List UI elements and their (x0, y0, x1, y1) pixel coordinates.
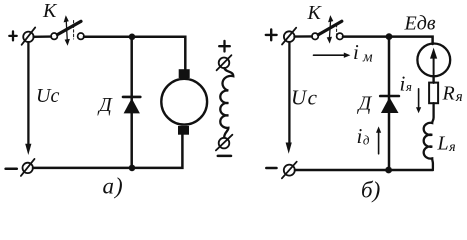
wire terminal to switch (circuit b) (295, 35, 312, 38)
node: junction bottom (circuit a) (129, 165, 136, 172)
top wire (circuit b) (343, 37, 433, 44)
node: junction top (circuit b) (386, 33, 393, 40)
resistor R_ya (429, 83, 438, 104)
terminal (+) circuit a : circle with slash (22, 27, 36, 44)
plus polarity mark (field winding, circuit a) (219, 41, 230, 52)
wire terminal to switch (34, 35, 51, 38)
wire: diode branch (circuit b) (388, 37, 391, 170)
terminal (-) circuit a (21, 159, 35, 176)
minus polarity mark (circuit a) (6, 167, 17, 170)
svg-text:Д: Д (97, 94, 113, 116)
diode D (circuit a) (123, 97, 140, 114)
bottom wire (circuit a) (33, 134, 182, 168)
terminal (-) circuit b (282, 162, 297, 179)
wire: left branch (circuit b) (288, 42, 290, 145)
EMF source E (circle with up arrow) (417, 44, 450, 77)
plus polarity mark (circuit b) (266, 30, 277, 41)
switch K (circuit b) (312, 15, 343, 43)
svg-text:Uс: Uс (36, 85, 59, 107)
current arrow i_m (314, 53, 351, 58)
svg-text:м: м (362, 50, 373, 66)
svg-text:К: К (307, 2, 323, 24)
terminal (+) circuit b (282, 28, 296, 45)
svg-text:i: i (353, 40, 359, 64)
voltage arrowhead on left wire (circuit b) (286, 143, 292, 154)
svg-text:К: К (42, 0, 58, 22)
wire: diode branch (circuit a) (130, 37, 133, 168)
current arrow i_ya (down) (416, 89, 421, 113)
current arrow i_d (up) (376, 126, 381, 153)
terminal (+) field winding (217, 55, 232, 70)
inductor L_ya (424, 103, 434, 169)
wire EMF to resistor (432, 76, 434, 83)
svg-text:Д: Д (357, 93, 373, 115)
diode D (circuit b) (380, 96, 399, 113)
voltage arrowhead on left wire (circuit a) (25, 144, 31, 155)
svg-text:Едв: Едв (404, 13, 436, 35)
motor M (circuit a): armature circle with brushes (161, 69, 207, 135)
plus polarity mark (left source, circuit a) (9, 31, 16, 40)
minus polarity mark (field winding) (218, 155, 231, 158)
node: junction top (circuit a) (129, 34, 136, 41)
svg-text:Uс: Uс (291, 86, 319, 110)
node: junction bottom (circuit b) (385, 167, 392, 174)
wire: left branch (circuit a) (27, 42, 29, 146)
minus polarity mark (circuit b) (266, 167, 276, 170)
bottom wire (circuit b) (295, 169, 433, 172)
svg-text:а): а) (103, 174, 124, 199)
inductor: field winding coil (circuit a) (220, 68, 233, 137)
terminal (-) field winding (216, 135, 233, 151)
top wire: switch to motor, with corner (84, 37, 185, 70)
svg-text:б): б) (361, 178, 380, 203)
switch K (circuit a) (51, 15, 84, 46)
